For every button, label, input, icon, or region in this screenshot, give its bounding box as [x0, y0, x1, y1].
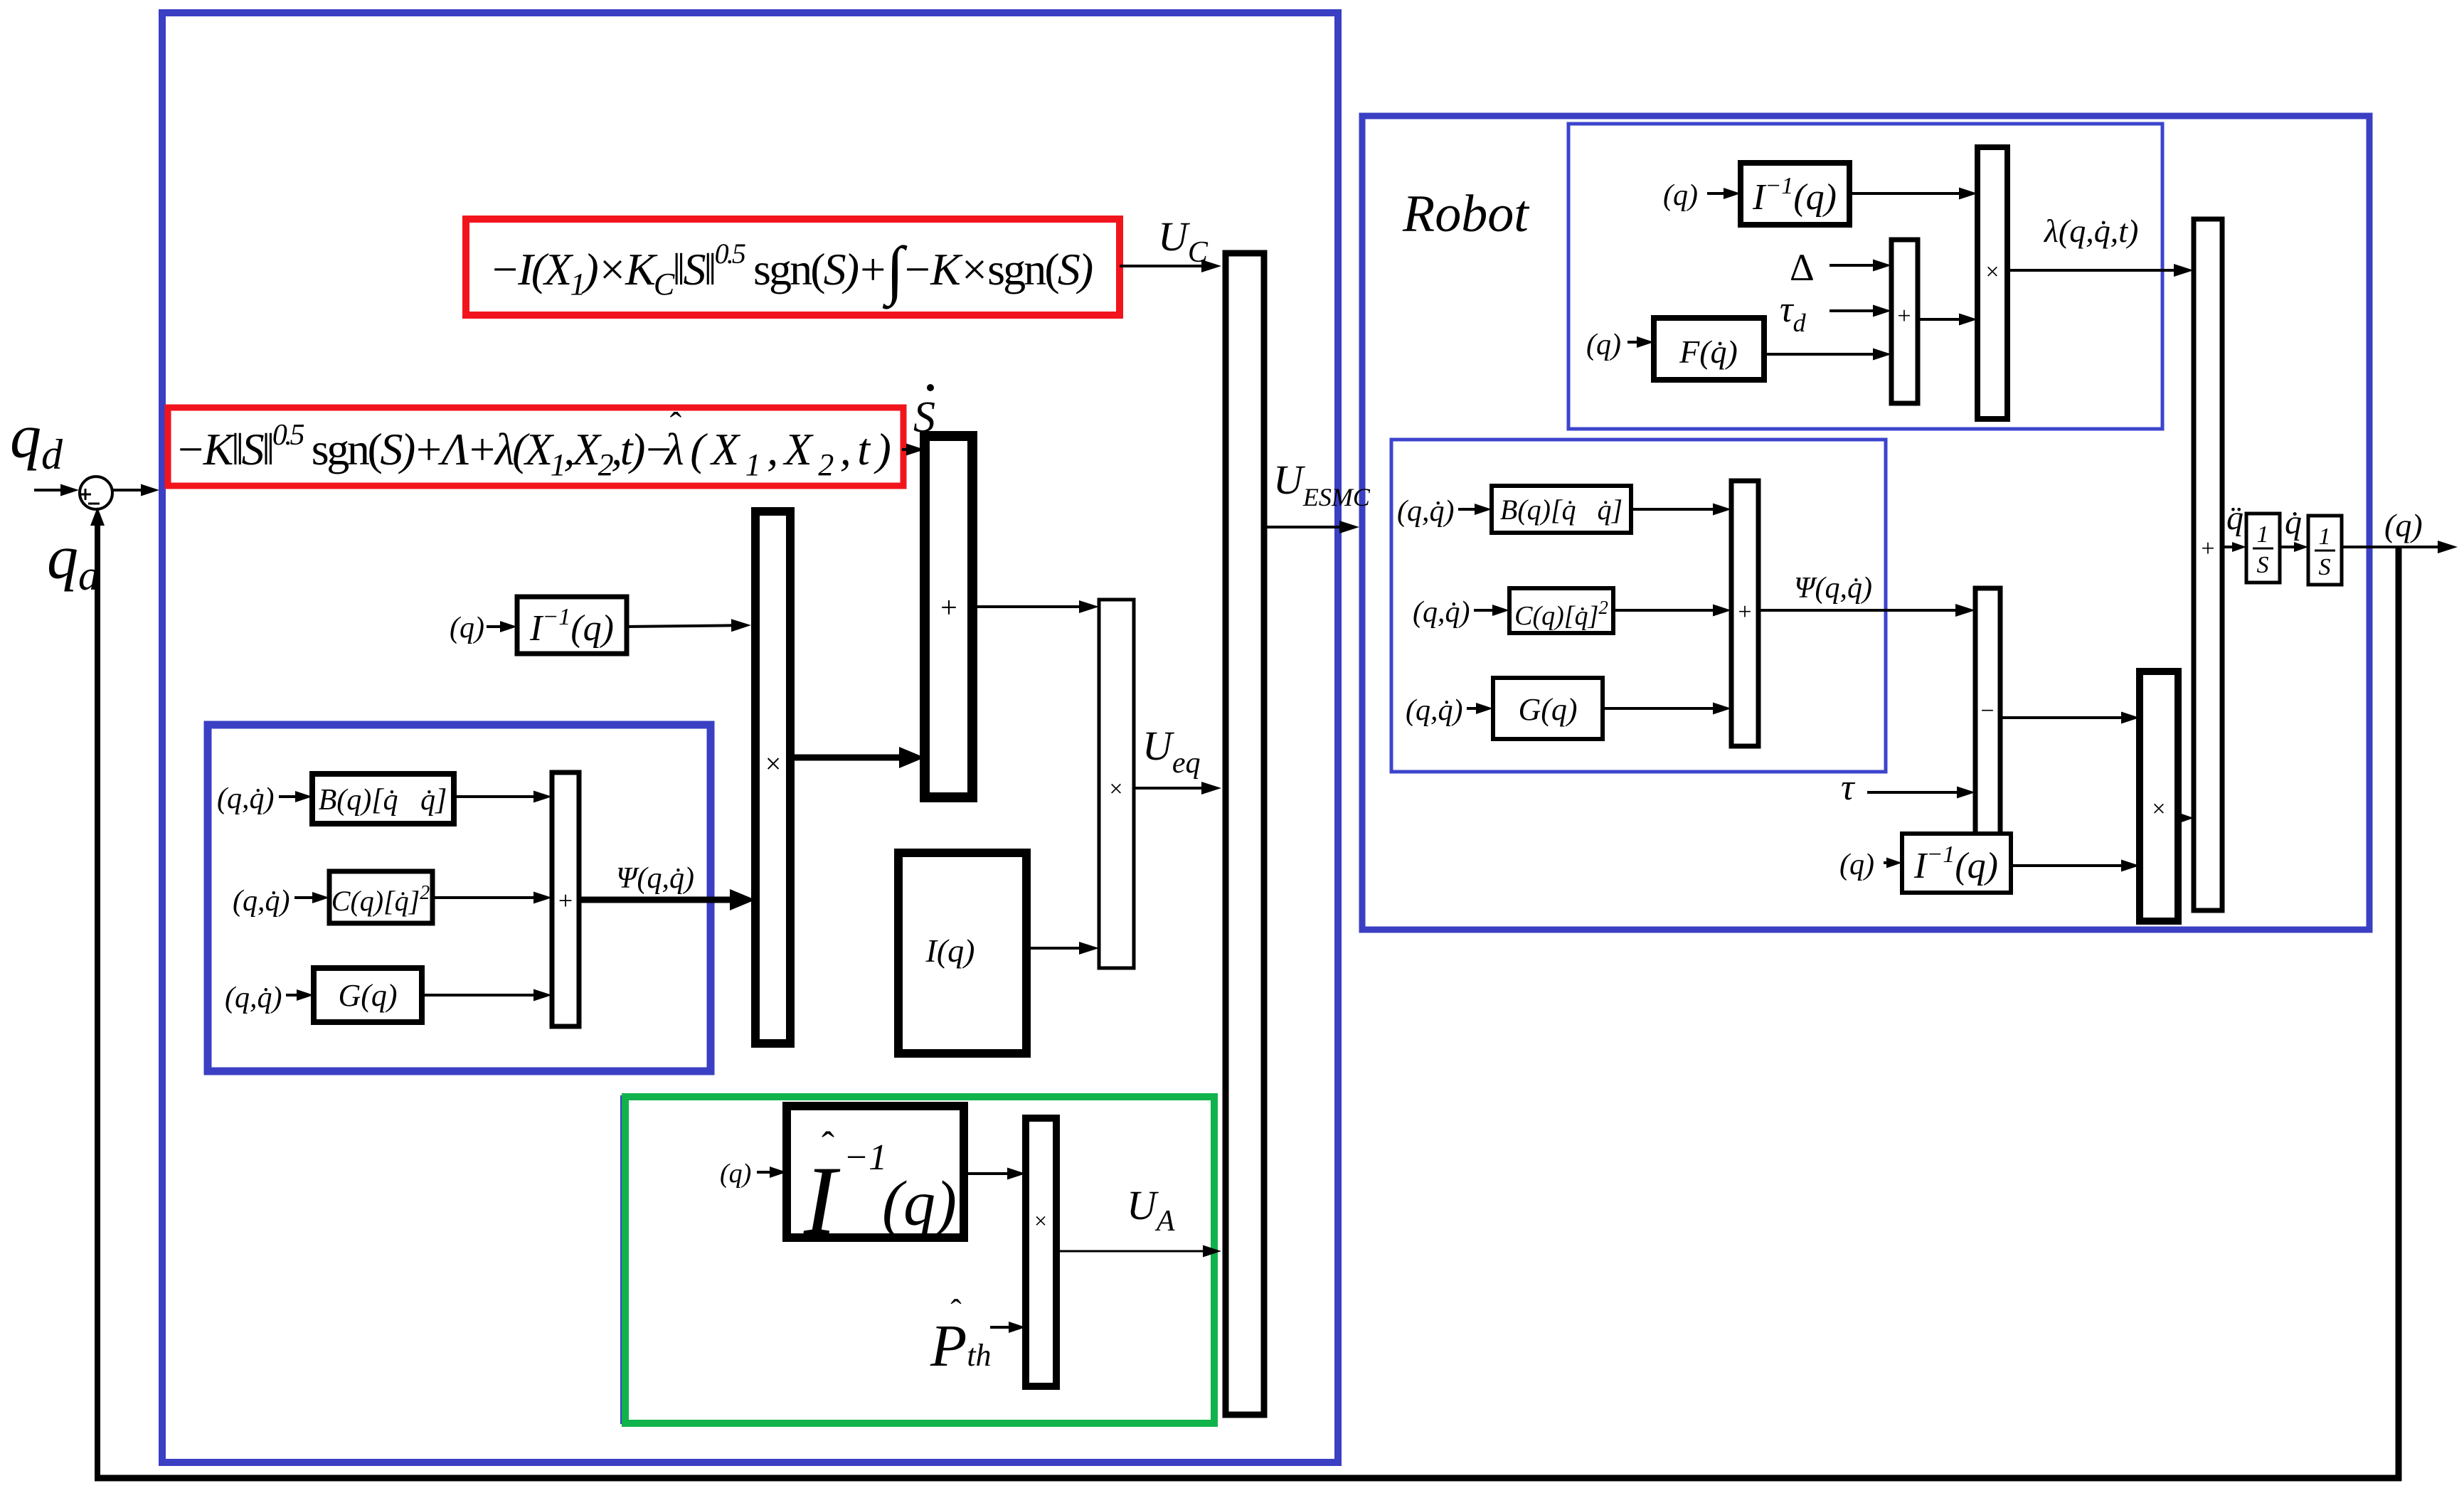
svg-text:(q,q̇): (q,q̇) — [217, 782, 274, 815]
wire (q) into F — [1627, 336, 1654, 348]
block B(q) controller — [312, 774, 454, 824]
times bar robot lower — [2140, 671, 2178, 921]
wire robot I-1 bottom to times2 — [2011, 860, 2140, 872]
svg-text:S: S — [2319, 554, 2331, 580]
svg-text:G(q): G(q) — [1518, 692, 1577, 727]
svg-text:UC: UC — [1158, 213, 1209, 269]
svg-text:(q): (q) — [2384, 507, 2423, 543]
block C(q) controller — [329, 871, 432, 923]
block Ihat^-1(q) — [787, 1106, 964, 1238]
svg-text:(q,q̇): (q,q̇) — [1397, 495, 1454, 528]
wire tau to minus bar — [1867, 787, 1975, 799]
wire Delta to plus1 — [1830, 260, 1891, 272]
svg-text:τd: τd — [1780, 289, 1807, 337]
svg-text:+: + — [940, 592, 957, 625]
wire into G block — [286, 989, 314, 1001]
svg-text:(q): (q) — [882, 1169, 957, 1239]
wire U_C into UESMC bar — [1120, 260, 1221, 272]
blue edge behind green box — [620, 1095, 625, 1424]
svg-text:(q,q̇): (q,q̇) — [233, 885, 290, 918]
wire minus bar to times2 — [2000, 712, 2140, 724]
wire (q) into I-1(q) — [487, 621, 517, 632]
wire U_ESMC output — [1264, 521, 1359, 533]
wire I(q) to Ueq bar — [1026, 942, 1099, 955]
svg-text:(q): (q) — [450, 612, 484, 644]
robot lower sub-box — [1391, 440, 1886, 772]
svg-text:C(q)[q̇]2: C(q)[q̇]2 — [1514, 597, 1608, 631]
wire I-1(q) to times-bar — [627, 619, 751, 632]
svg-text:τ: τ — [1841, 767, 1856, 808]
big plus bar robot — [2194, 219, 2222, 910]
svg-text:+: + — [1897, 303, 1911, 329]
wire (q) into Ihat — [757, 1167, 787, 1178]
plus bar controller — [552, 772, 579, 1026]
wire F to plus1 — [1764, 349, 1891, 361]
block I^-1(q) controller — [517, 597, 627, 654]
wire U_A to UESMC bar — [1056, 1245, 1221, 1258]
wire plus1 to times1 — [1918, 314, 1977, 326]
U_ESMC collector bar — [1226, 253, 1264, 1415]
red formula box 2 — [168, 408, 903, 486]
block integrator 1/S second — [2308, 516, 2342, 585]
wire C to plus bar — [432, 892, 552, 904]
svg-text:+: + — [558, 886, 573, 915]
block F(qdot) — [1654, 318, 1764, 380]
svg-text:1: 1 — [2257, 521, 2269, 548]
times bar controller — [755, 511, 790, 1043]
svg-text:λ(q,q̇,t): λ(q,q̇,t) — [2043, 213, 2138, 249]
wire tau_d to plus1 — [1830, 305, 1891, 317]
svg-text:(q,q̇): (q,q̇) — [225, 982, 282, 1014]
svg-text:(q): (q) — [1839, 849, 1874, 881]
svg-text:ˆ: ˆ — [670, 405, 682, 445]
wire times2 to big plus bar — [2178, 813, 2194, 823]
svg-text:Ueq: Ueq — [1142, 723, 1201, 780]
svg-text:(q): (q) — [720, 1159, 751, 1189]
svg-text:(q,q̇): (q,q̇) — [1413, 596, 1470, 629]
summing junction — [80, 477, 112, 509]
wire into robot G — [1467, 703, 1493, 714]
wire (q) into robot I-1 bottom — [1884, 858, 1902, 868]
svg-text:−1: −1 — [844, 1137, 887, 1178]
wire feedback bottom — [95, 1475, 2401, 1482]
plus bar robot lower — [1731, 481, 1758, 746]
controller dynamics blue box — [208, 725, 711, 1071]
svg-text:(q,q̇): (q,q̇) — [1406, 694, 1462, 727]
svg-text:G(q): G(q) — [338, 978, 397, 1013]
svg-text:B(q)[q̇ q̇]: B(q)[q̇ q̇] — [1500, 494, 1623, 526]
red formula box 1 — [466, 219, 1120, 315]
svg-text:q̈: q̈ — [2226, 499, 2243, 537]
green times bar — [1026, 1118, 1056, 1386]
block integrator 1/S first — [2246, 514, 2280, 583]
wire Psi thick into times bar — [579, 889, 755, 910]
wire robot B to plus2 — [1631, 504, 1731, 516]
svg-text:C(q)[q̇]2: C(q)[q̇]2 — [331, 882, 430, 917]
svg-text:UESMC: UESMC — [1273, 457, 1371, 511]
block I^-1(q) robot top — [1741, 163, 1849, 225]
svg-text:S: S — [2257, 552, 2269, 578]
svg-text:I−1(q): I−1(q) — [1752, 173, 1837, 218]
svg-text:F(q̇): F(q̇) — [1679, 334, 1738, 370]
svg-text:−I(X1)×KC‖S‖0.5 sgn(S)+∫−K×sgn: −I(X1)×KC‖S‖0.5 sgn(S)+∫−K×sgn(S) — [489, 233, 1093, 309]
wire summer output — [112, 484, 159, 496]
wire red2 to S-dot bar — [902, 444, 925, 456]
block I^-1(q) robot bottom — [1902, 834, 2011, 893]
svg-text:qd: qd — [10, 403, 63, 478]
wire Ihat to green times bar — [964, 1168, 1026, 1180]
svg-text:+: + — [1738, 599, 1751, 625]
svg-text:ˆ: ˆ — [822, 1124, 834, 1167]
wire Pth into green times bar — [990, 1322, 1026, 1333]
wire times bar to S-dot bar thick — [790, 747, 925, 768]
green adaptive box — [625, 1097, 1214, 1423]
svg-text:(q): (q) — [1663, 179, 1698, 212]
svg-text:×: × — [2152, 796, 2165, 822]
times bar robot upper — [1977, 147, 2007, 419]
robot upper sub-box — [1568, 124, 2162, 429]
svg-text:ˆ: ˆ — [950, 1292, 961, 1329]
wire robot output — [2342, 541, 2458, 553]
svg-text:q̇: q̇ — [2285, 504, 2302, 541]
svg-text:Ψ(q,q̇): Ψ(q,q̇) — [1794, 572, 1872, 605]
svg-text:UA: UA — [1127, 1182, 1175, 1238]
svg-text:B(q)[q̇ q̇]: B(q)[q̇ q̇] — [319, 784, 447, 817]
svg-text:−: − — [1980, 698, 1994, 724]
wire robot C to plus2 — [1613, 605, 1731, 617]
wire into robot B — [1458, 504, 1492, 515]
wire big plus to integrator 1 — [2222, 542, 2246, 552]
svg-text:1: 1 — [2319, 524, 2331, 550]
svg-text:qa: qa — [47, 524, 100, 599]
wire B to plus bar — [454, 791, 552, 803]
svg-text:×: × — [1034, 1208, 1047, 1233]
wire (q) into robot I-1 top — [1707, 188, 1741, 199]
wire Ueq to UESMC bar — [1134, 782, 1221, 795]
wire S-dot bar to Ueq bar — [972, 600, 1099, 613]
Ueq times bar — [1099, 600, 1134, 968]
svg-text:λ(X1,X2,t): λ(X1,X2,t) — [663, 424, 897, 482]
svg-text:I−1(q): I−1(q) — [529, 604, 614, 649]
svg-text:−K‖S‖0.5 sgn(S)+Λ+λ(X1,X2,t)−: −K‖S‖0.5 sgn(S)+Λ+λ(X1,X2,t)− — [175, 419, 671, 482]
wire robot I-1 top to times1 — [1849, 188, 1977, 200]
wire lambda to big plus bar — [2007, 264, 2194, 277]
svg-text:Ψ(q,q̇): Ψ(q,q̇) — [616, 862, 694, 895]
svg-text:×: × — [765, 748, 782, 780]
svg-text:S: S — [913, 393, 935, 442]
svg-text:(q): (q) — [1586, 329, 1621, 361]
svg-text:×: × — [1109, 776, 1122, 802]
wire q_d input — [34, 484, 79, 496]
svg-text:I(q): I(q) — [925, 932, 975, 969]
wire robot G to plus2 — [1603, 703, 1731, 715]
wire into B block — [279, 791, 312, 802]
controller outer box — [162, 13, 1338, 1462]
wire Psi robot to minus bar — [1758, 604, 1975, 617]
wire q_a feedback up into summer — [90, 507, 105, 1478]
svg-text:×: × — [1985, 259, 1999, 285]
svg-text:+: + — [2201, 536, 2214, 562]
wire into C block — [294, 892, 329, 903]
dot over S-dot label — [927, 384, 934, 391]
S-dot plus bar — [925, 436, 972, 797]
block I(q) — [898, 853, 1026, 1053]
minus bar robot — [1975, 588, 2000, 836]
block B(q) robot — [1492, 486, 1631, 533]
svg-text:Robot: Robot — [1402, 185, 1530, 243]
robot outer box — [1362, 116, 2369, 930]
block G(q) controller — [314, 968, 422, 1022]
wire feedback right vertical — [2396, 547, 2402, 1481]
svg-text:I−1(q): I−1(q) — [1913, 841, 1998, 886]
wire G to plus bar — [422, 989, 552, 1001]
plus bar robot upper — [1891, 240, 1918, 403]
svg-text:Δ: Δ — [1790, 246, 1815, 289]
wire into robot C — [1474, 605, 1509, 616]
wire integrator1 to integrator2 — [2280, 542, 2308, 552]
block C(q) robot — [1509, 588, 1613, 633]
block G(q) robot — [1493, 678, 1603, 739]
